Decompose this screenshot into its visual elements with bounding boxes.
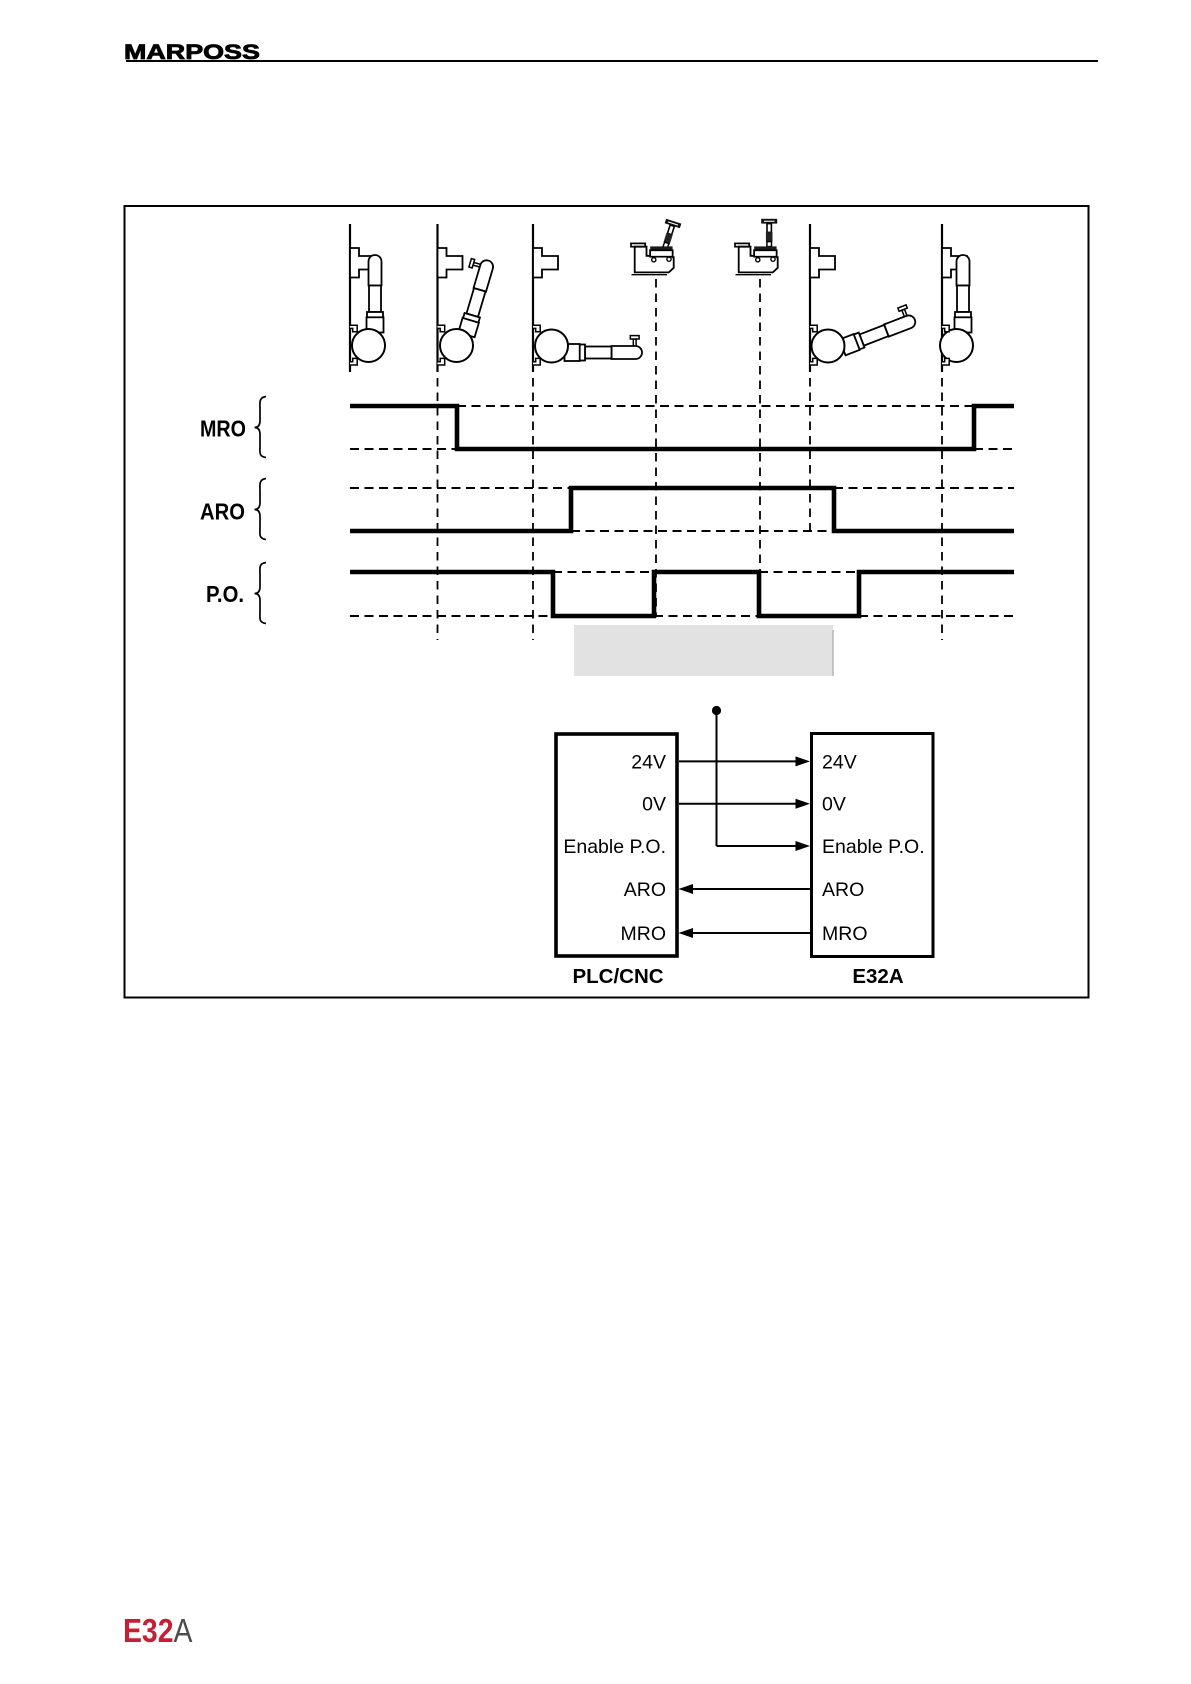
svg-text:E32A: E32A	[852, 965, 903, 988]
svg-text:ARO: ARO	[200, 499, 245, 525]
svg-text:P.O.: P.O.	[206, 581, 244, 607]
svg-text:0V: 0V	[642, 794, 666, 816]
svg-text:0V: 0V	[822, 794, 846, 816]
svg-text:24V: 24V	[631, 751, 666, 773]
svg-text:PLC/CNC: PLC/CNC	[572, 965, 663, 988]
svg-text:24V: 24V	[822, 751, 857, 773]
svg-text:MRO: MRO	[621, 923, 667, 945]
svg-text:ARO: ARO	[822, 879, 864, 901]
svg-text:MRO: MRO	[200, 416, 246, 442]
svg-text:Enable P.O.: Enable P.O.	[563, 836, 666, 858]
svg-text:Enable P.O.: Enable P.O.	[822, 836, 925, 858]
svg-text:ARO: ARO	[624, 879, 666, 901]
svg-text:MRO: MRO	[822, 923, 868, 945]
